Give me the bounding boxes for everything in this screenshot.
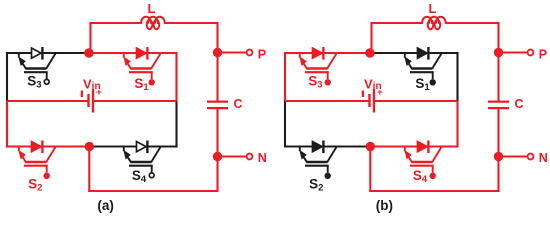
junction dot top (a) bbox=[84, 48, 93, 57]
transistor S2 body bar bbox=[25, 161, 46, 164]
transistor S4 body bar bbox=[130, 161, 151, 164]
wire: left vertical upper (b) bbox=[284, 52, 286, 101]
transistor S1 emitter lead with arrow bbox=[123, 53, 131, 69]
svg-text:C: C bbox=[234, 97, 243, 111]
wire: top rail left segment (a) bbox=[6, 52, 89, 54]
transistor S3 collector lead bbox=[327, 54, 336, 69]
transistor S3 body bar bbox=[25, 67, 46, 70]
transistor S2 gate lead bbox=[46, 166, 48, 173]
transistor S1 body bar bbox=[411, 67, 432, 70]
svg-text:L: L bbox=[429, 1, 437, 16]
wire: left vertical lower (a) bbox=[6, 101, 8, 148]
diode of switch S3 bbox=[32, 47, 43, 60]
wire: inductor line left (a) bbox=[89, 22, 141, 24]
transistor S4 gate lead bbox=[151, 166, 153, 173]
transistor S1 gate terminal bbox=[149, 79, 155, 85]
transistor S2 emitter lead with arrow bbox=[299, 147, 307, 163]
transistor S3 emitter lead with arrow bbox=[299, 53, 307, 69]
junction dot bottom (a) bbox=[85, 142, 94, 151]
transistor S4 gate terminal bbox=[430, 173, 436, 179]
transistor S1 gate bar bbox=[410, 71, 434, 73]
terminal N open circle (b) bbox=[528, 154, 534, 160]
svg-text:(a): (a) bbox=[97, 198, 114, 213]
transistor S3 gate lead bbox=[327, 72, 329, 79]
transistor S3 gate lead bbox=[46, 72, 48, 79]
transistor S2 gate bar bbox=[305, 165, 329, 167]
wire: return path up to node N (b) bbox=[497, 157, 499, 192]
capacitor C plates (a) bbox=[207, 102, 228, 109]
inductor L (b) bbox=[422, 17, 446, 23]
wire: stub to terminal P (a) bbox=[218, 51, 246, 53]
junction dot top (b) bbox=[365, 48, 374, 57]
wire: capacitor leg lower (b) bbox=[497, 109, 499, 157]
transistor S4 emitter lead with arrow bbox=[404, 147, 412, 163]
wire: return path up to node N (a) bbox=[216, 157, 218, 192]
wire: capacitor leg lower (a) bbox=[216, 109, 218, 157]
node P junction dot (b) bbox=[494, 48, 503, 57]
diode of switch S3 bbox=[313, 47, 324, 60]
transistor S4 gate bar bbox=[410, 165, 434, 167]
svg-text:N: N bbox=[539, 151, 548, 165]
voltage source minus tick (b) bbox=[362, 91, 364, 98]
wire: right vertical upper (a) bbox=[175, 52, 177, 101]
voltage source Vin long plate (a) bbox=[92, 89, 94, 113]
wire: return path bottom junction down (b) bbox=[369, 147, 371, 193]
transistor S3 body bar bbox=[306, 67, 327, 70]
wire: return path bottom horizontal (b) bbox=[369, 190, 499, 192]
diode of switch S2 bbox=[32, 141, 43, 154]
wire: stub to terminal N (b) bbox=[499, 155, 527, 157]
transistor S4 gate bar bbox=[129, 165, 153, 167]
transistor S4 emitter lead with arrow bbox=[123, 147, 131, 163]
transistor S1 gate lead bbox=[151, 72, 153, 79]
wire: source line right of Vin (a) bbox=[93, 100, 177, 102]
transistor S2 emitter lead with arrow bbox=[18, 147, 26, 163]
transistor S4 gate terminal bbox=[149, 173, 154, 178]
transistor S2 gate lead bbox=[327, 166, 329, 173]
voltage source Vin short plate (a) bbox=[87, 94, 89, 107]
wire: left vertical upper (a) bbox=[6, 52, 8, 101]
transistor S4 gate lead bbox=[432, 166, 434, 173]
transistor S3 gate bar bbox=[305, 71, 329, 73]
node P junction dot (a) bbox=[213, 48, 222, 57]
terminal P open circle (a) bbox=[247, 50, 253, 56]
svg-text:P: P bbox=[258, 48, 266, 62]
transistor S1 gate terminal bbox=[430, 79, 436, 85]
wire: return path bottom horizontal (a) bbox=[88, 190, 218, 192]
wire: inductor line right (a) bbox=[165, 22, 218, 24]
transistor S2 gate terminal bbox=[325, 173, 331, 179]
transistor S4 collector lead bbox=[151, 147, 160, 162]
wire: bottom rail left segment (b) bbox=[284, 145, 370, 147]
transistor S4 collector lead bbox=[432, 147, 441, 162]
wire: return path bottom junction down (a) bbox=[88, 147, 90, 193]
svg-text:(b): (b) bbox=[376, 198, 393, 213]
transistor S3 gate terminal bbox=[44, 79, 49, 84]
wire: stub to terminal N (a) bbox=[218, 155, 246, 157]
transistor S2 gate terminal bbox=[44, 173, 50, 179]
svg-text:+: + bbox=[377, 87, 383, 98]
transistor S1 gate lead bbox=[432, 72, 434, 79]
voltage source minus tick (a) bbox=[81, 91, 83, 98]
voltage source Vin short plate (b) bbox=[368, 94, 370, 107]
transistor S3 gate terminal bbox=[325, 79, 331, 85]
transistor S1 body bar bbox=[130, 67, 151, 70]
inductor L (a) bbox=[141, 17, 165, 23]
diode of switch S4 bbox=[137, 141, 148, 154]
voltage source Vin long plate (b) bbox=[373, 89, 375, 113]
transistor S2 collector lead bbox=[327, 147, 336, 162]
node N junction dot (b) bbox=[494, 152, 503, 161]
transistor S2 gate bar bbox=[24, 165, 48, 167]
diode of switch S4 bbox=[418, 141, 429, 154]
wire: inductor line right (b) bbox=[446, 22, 499, 24]
diode of switch S1 bbox=[418, 47, 429, 60]
transistor S1 gate bar bbox=[129, 71, 153, 73]
wire: bottom rail left segment (a) bbox=[6, 145, 89, 147]
transistor S3 emitter lead with arrow bbox=[18, 53, 26, 69]
node N junction dot (a) bbox=[213, 152, 222, 161]
wire: source line left of Vin (b) bbox=[285, 100, 369, 102]
wire: right vertical upper (b) bbox=[456, 52, 458, 101]
wire: capacitor leg upper (a) bbox=[216, 53, 218, 101]
wire: riser from top junction to inductor line (a) bbox=[89, 22, 91, 53]
wire: bottom rail right segment (b) bbox=[370, 145, 459, 147]
wire: stub to terminal P (b) bbox=[499, 51, 527, 53]
diode of switch S2 bbox=[313, 141, 324, 154]
wire: right vertical lower (b) bbox=[456, 101, 458, 148]
wire: bottom rail right segment (a) bbox=[89, 145, 178, 147]
svg-text:N: N bbox=[258, 151, 267, 165]
wire: drop from inductor line to node P (a) bbox=[216, 22, 218, 53]
terminal N open circle (a) bbox=[247, 154, 253, 160]
wire: riser from top junction to inductor line (b) bbox=[370, 22, 372, 53]
transistor S2 collector lead bbox=[46, 147, 55, 162]
wire: top rail left segment (b) bbox=[284, 52, 370, 54]
transistor S3 collector lead bbox=[46, 54, 55, 69]
svg-text:P: P bbox=[539, 48, 547, 62]
wire: inductor line left (b) bbox=[370, 22, 422, 24]
svg-text:C: C bbox=[515, 97, 524, 111]
diode of switch S1 bbox=[137, 47, 148, 60]
transistor S2 body bar bbox=[306, 161, 327, 164]
wire: capacitor leg upper (b) bbox=[497, 53, 499, 101]
wire: source line left of Vin (a) bbox=[7, 100, 88, 102]
wire: top rail right segment (b) bbox=[370, 52, 459, 54]
capacitor C plates (b) bbox=[488, 102, 509, 109]
wire: top rail right segment (a) bbox=[89, 52, 178, 54]
transistor S3 gate bar bbox=[24, 71, 48, 73]
svg-text:L: L bbox=[148, 1, 156, 16]
wire: drop from inductor line to node P (b) bbox=[497, 22, 499, 53]
transistor S1 collector lead bbox=[151, 54, 160, 69]
svg-text:+: + bbox=[96, 87, 102, 98]
terminal P open circle (b) bbox=[528, 50, 534, 56]
transistor S1 emitter lead with arrow bbox=[404, 53, 412, 69]
transistor S4 body bar bbox=[411, 161, 432, 164]
wire: left vertical lower (b) bbox=[284, 101, 286, 148]
wire: right vertical lower (a) bbox=[175, 101, 177, 148]
wire: source line right of Vin (b) bbox=[374, 100, 458, 102]
junction dot bottom (b) bbox=[366, 142, 375, 151]
transistor S1 collector lead bbox=[432, 54, 441, 69]
